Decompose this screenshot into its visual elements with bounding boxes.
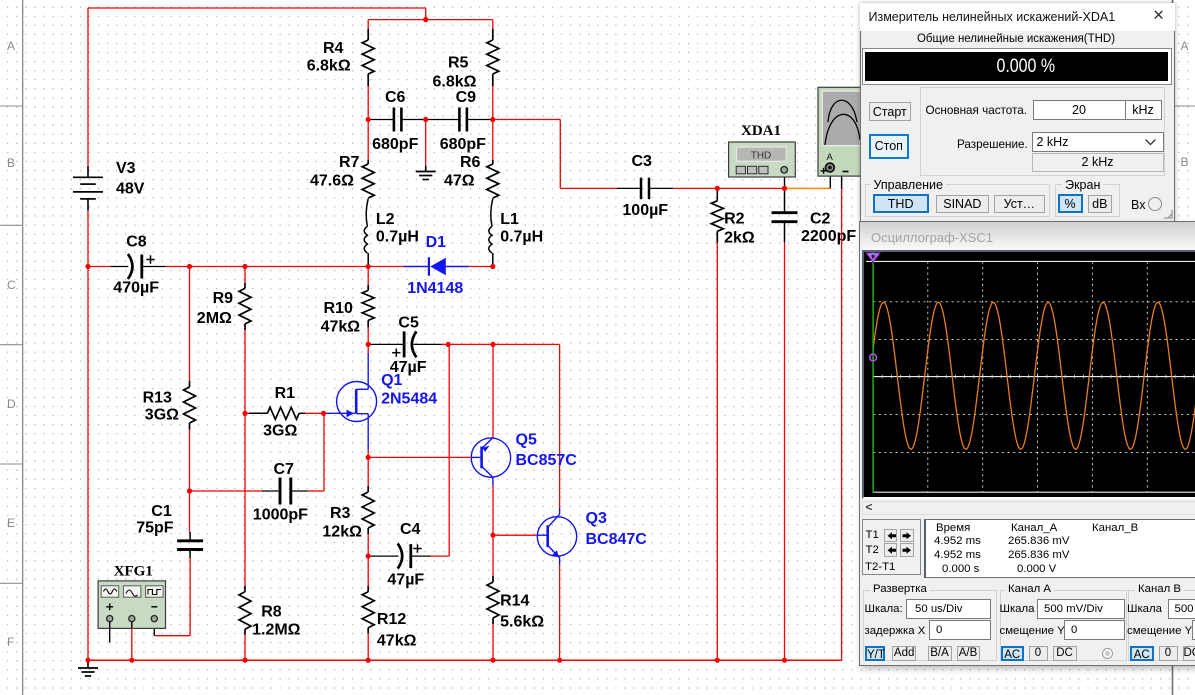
svg-text:12kΩ: 12kΩ bbox=[322, 524, 362, 541]
svg-text:470µF: 470µF bbox=[113, 280, 159, 297]
svg-text:L2: L2 bbox=[376, 211, 395, 228]
svg-text:1N4148: 1N4148 bbox=[407, 280, 463, 297]
svg-text:47.6Ω: 47.6Ω bbox=[310, 173, 354, 190]
svg-text:A: A bbox=[7, 39, 15, 53]
svg-text:75pF: 75pF bbox=[136, 520, 174, 537]
svg-text:0.7µH: 0.7µH bbox=[376, 228, 419, 245]
svg-text:D1: D1 bbox=[426, 234, 447, 251]
svg-text:0.7µH: 0.7µH bbox=[500, 228, 543, 245]
svg-text:48V: 48V bbox=[116, 180, 145, 197]
svg-text:R8: R8 bbox=[261, 604, 282, 621]
svg-text:BC847C: BC847C bbox=[586, 531, 648, 548]
svg-text:BC857C: BC857C bbox=[516, 452, 578, 469]
svg-text:Q3: Q3 bbox=[586, 510, 607, 527]
svg-text:R4: R4 bbox=[323, 40, 344, 57]
svg-text:C6: C6 bbox=[385, 89, 406, 106]
svg-text:47Ω: 47Ω bbox=[444, 173, 475, 190]
svg-text:XFG1: XFG1 bbox=[114, 563, 153, 579]
svg-text:6.8kΩ: 6.8kΩ bbox=[433, 73, 477, 90]
svg-text:XDA1: XDA1 bbox=[741, 123, 781, 139]
svg-text:3GΩ: 3GΩ bbox=[263, 422, 297, 439]
svg-text:2kΩ: 2kΩ bbox=[724, 230, 755, 247]
svg-text:100µF: 100µF bbox=[622, 202, 668, 219]
svg-text:V3: V3 bbox=[116, 160, 136, 177]
svg-text:R12: R12 bbox=[377, 611, 406, 628]
svg-text:R2: R2 bbox=[724, 210, 745, 227]
svg-text:R5: R5 bbox=[448, 55, 469, 72]
svg-text:R7: R7 bbox=[339, 154, 360, 171]
svg-text:680pF: 680pF bbox=[372, 136, 418, 153]
svg-text:2N5484: 2N5484 bbox=[381, 391, 437, 408]
svg-text:1000pF: 1000pF bbox=[253, 507, 308, 524]
svg-text:Q1: Q1 bbox=[381, 372, 402, 389]
svg-text:680pF: 680pF bbox=[440, 136, 486, 153]
svg-text:47kΩ: 47kΩ bbox=[321, 319, 361, 336]
svg-text:L1: L1 bbox=[500, 211, 519, 228]
svg-text:Q5: Q5 bbox=[516, 431, 537, 448]
svg-text:C5: C5 bbox=[398, 314, 419, 331]
svg-text:R10: R10 bbox=[324, 300, 353, 317]
svg-text:A: A bbox=[1181, 39, 1189, 53]
svg-text:C3: C3 bbox=[632, 153, 653, 170]
svg-text:2200pF: 2200pF bbox=[801, 228, 856, 245]
svg-text:C: C bbox=[7, 278, 16, 292]
svg-text:R1: R1 bbox=[275, 385, 296, 402]
svg-text:E: E bbox=[7, 516, 15, 530]
svg-text:B: B bbox=[7, 156, 15, 170]
svg-text:1.2MΩ: 1.2MΩ bbox=[252, 622, 301, 639]
svg-text:2MΩ: 2MΩ bbox=[197, 310, 232, 327]
svg-text:D: D bbox=[7, 397, 16, 411]
svg-text:C1: C1 bbox=[151, 503, 172, 520]
svg-text:R3: R3 bbox=[330, 505, 351, 522]
svg-text:R14: R14 bbox=[500, 593, 529, 610]
svg-text:C7: C7 bbox=[274, 461, 295, 478]
svg-text:5.6kΩ: 5.6kΩ bbox=[500, 613, 544, 630]
svg-text:C8: C8 bbox=[126, 234, 147, 251]
svg-text:B: B bbox=[1181, 155, 1189, 169]
svg-text:C4: C4 bbox=[400, 521, 421, 538]
svg-text:47µF: 47µF bbox=[387, 572, 424, 589]
svg-text:R6: R6 bbox=[460, 154, 481, 171]
svg-text:R9: R9 bbox=[213, 290, 234, 307]
svg-text:6.8kΩ: 6.8kΩ bbox=[307, 58, 351, 75]
svg-text:3GΩ: 3GΩ bbox=[145, 407, 179, 424]
svg-text:C9: C9 bbox=[456, 89, 477, 106]
svg-text:C2: C2 bbox=[810, 210, 831, 227]
svg-text:47kΩ: 47kΩ bbox=[377, 633, 417, 650]
svg-text:A: A bbox=[827, 152, 834, 163]
svg-text:THD: THD bbox=[751, 151, 772, 162]
svg-text:R13: R13 bbox=[143, 390, 172, 407]
svg-text:F: F bbox=[7, 635, 14, 649]
